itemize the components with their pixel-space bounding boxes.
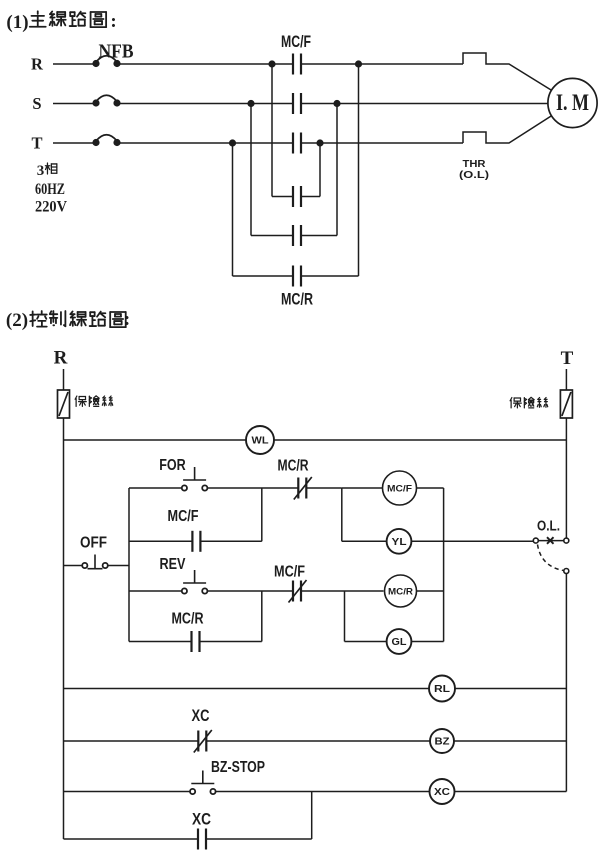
svg-text:MC/F: MC/F [274, 564, 305, 581]
svg-text:(2): (2) [6, 310, 28, 331]
phase label R [31, 55, 44, 74]
rail label T [561, 348, 574, 369]
wire MC/R row 1 with verticals [272, 64, 320, 197]
contact MC/F NO (holding) [192, 531, 200, 552]
label 220V [35, 199, 68, 216]
node T-right junction [316, 139, 323, 146]
label 60HZ [35, 181, 65, 198]
pushbutton REV (NO) [182, 570, 208, 594]
node T-left junction [229, 139, 236, 146]
fuse F1 (left) [58, 369, 70, 418]
title: (2) control circuit diagram heading [6, 309, 130, 331]
label BZ-STOP [211, 759, 265, 776]
wire MC/F-YL box left edge [341, 488, 343, 541]
lamp RL [429, 676, 455, 702]
svg-text:T: T [561, 348, 574, 369]
lamp WL [246, 426, 274, 454]
wire right rail lower [565, 574, 567, 792]
svg-text:R: R [54, 348, 68, 369]
svg-text:MC/R: MC/R [281, 291, 313, 309]
label NFB [99, 41, 134, 63]
wire MC/R row 3 with verticals [233, 64, 359, 276]
svg-text:FOR: FOR [159, 457, 186, 474]
wire bottom row [64, 838, 312, 840]
wire GL row [345, 641, 444, 643]
breaker NFB pole R [92, 56, 120, 67]
wire MC/R row 2 with verticals [251, 104, 337, 236]
rail label R [54, 348, 68, 369]
pushbutton BZ-STOP (NC) [190, 771, 216, 795]
contact XC NC [194, 730, 212, 753]
label 3-phase [37, 163, 57, 179]
svg-text:BZ-STOP: BZ-STOP [211, 759, 265, 776]
contact MC/R NC (interlock) [294, 477, 312, 500]
svg-text:60HZ: 60HZ [35, 181, 65, 198]
contact MC/R pole 2 [293, 225, 301, 246]
svg-text:OFF: OFF [80, 535, 107, 552]
svg-text:(1): (1) [6, 12, 28, 33]
label MC/R (holding contact) [172, 611, 204, 628]
wire MC/F holding row [129, 540, 262, 542]
label MC/F (interlock contact) [274, 564, 305, 581]
label fuse left [75, 396, 113, 407]
svg-text:XC: XC [192, 810, 211, 829]
wire FOR row [129, 487, 383, 489]
svg-text:3: 3 [37, 163, 45, 179]
svg-text:YL: YL [392, 537, 407, 548]
overload switch O.L. [533, 537, 569, 573]
coil MC/R [385, 575, 417, 607]
label O.L. [537, 519, 560, 535]
contact MC/R pole 3 [293, 266, 301, 287]
svg-text::: : [124, 309, 130, 330]
label REV [160, 556, 186, 573]
phase label S [32, 94, 41, 113]
svg-text:BZ: BZ [435, 737, 450, 748]
label MC/F (main contactor forward) [281, 33, 311, 51]
svg-text:MC/F: MC/F [281, 33, 311, 51]
contact MC/F pole 2 (S) [293, 93, 301, 114]
svg-text:220V: 220V [35, 199, 68, 216]
svg-text:I. M: I. M [556, 90, 589, 115]
wire S phase [53, 103, 548, 105]
coil MC/F [383, 471, 417, 505]
lamp GL [387, 629, 412, 654]
contact MC/F pole 3 (T) [293, 133, 301, 154]
svg-text:NFB: NFB [99, 41, 134, 63]
contact XC NO (holding) [198, 829, 206, 850]
label fuse right [510, 397, 548, 408]
wire REV row [129, 590, 384, 592]
wire R phase [53, 53, 554, 92]
label THR [463, 158, 486, 170]
wire RL row [64, 688, 567, 690]
svg-text::: : [110, 11, 116, 32]
wire branch box left edge [128, 488, 130, 642]
wire coil MC/F to right vertical [417, 487, 444, 489]
breaker NFB pole T [92, 135, 120, 146]
svg-text:REV: REV [160, 556, 186, 573]
phase label T [31, 134, 42, 153]
contact MC/R NO (holding) [192, 631, 200, 652]
fuse F2 (right) [560, 369, 572, 418]
wire OFF feed [64, 565, 130, 567]
node R-right junction [355, 60, 362, 67]
svg-text:MC/F: MC/F [387, 484, 412, 495]
svg-text:WL: WL [252, 436, 269, 447]
wire XC holding branch vertical [311, 792, 313, 840]
wire WL top row [64, 439, 567, 441]
breaker NFB pole S [92, 95, 120, 106]
coil XC [430, 779, 455, 804]
node R-left junction [268, 60, 275, 67]
contact MC/R pole 1 [293, 186, 301, 207]
svg-text:R: R [31, 55, 44, 74]
wire right rail upper [565, 418, 567, 538]
label MC/R (main contactor reverse) [281, 291, 313, 309]
pushbutton OFF (NC) [82, 555, 108, 569]
svg-text:S: S [32, 94, 41, 113]
wire T phase [53, 115, 554, 144]
svg-text:MC/R: MC/R [388, 587, 413, 598]
wire REV box right edge [261, 591, 263, 642]
wire MC/R holding row [129, 641, 262, 643]
svg-text:MC/R: MC/R [172, 611, 204, 628]
svg-text:XC: XC [192, 706, 210, 725]
svg-text:GL: GL [392, 637, 407, 648]
wire XC coil row [64, 791, 567, 793]
wire BZ row [64, 740, 567, 742]
svg-text:(O.L): (O.L) [459, 169, 489, 181]
svg-text:MC/R: MC/R [278, 458, 309, 475]
motor I.M [548, 78, 597, 127]
title: (1) main circuit diagram heading [6, 11, 116, 33]
node S-left junction [247, 100, 254, 107]
contact MC/F NC (interlock) [289, 580, 307, 603]
svg-text:T: T [31, 134, 42, 153]
wire right collector vertical [443, 488, 445, 642]
wire YL row [342, 540, 444, 542]
label MC/F (holding contact) [168, 508, 199, 525]
node S-right junction [333, 100, 340, 107]
label XC (holding contact) [192, 810, 211, 829]
wire left rail [63, 418, 65, 839]
label XC (cutoff contact) [192, 706, 210, 725]
lamp YL [387, 529, 412, 554]
svg-text:RL: RL [434, 684, 450, 695]
svg-text:O.L.: O.L. [537, 519, 560, 535]
lamp BZ (buzzer) [430, 729, 454, 753]
label OFF [80, 535, 107, 552]
svg-text:MC/F: MC/F [168, 508, 199, 525]
wire YL row to OL switch [444, 540, 534, 542]
label FOR [159, 457, 186, 474]
svg-text:XC: XC [434, 787, 450, 798]
wire FOR box right edge [261, 488, 263, 541]
contact MC/F pole 1 (R) [293, 54, 301, 75]
pushbutton FOR (NO) [182, 467, 208, 491]
wire coil MC/R to right vertical [417, 590, 444, 592]
label (O.L) [459, 169, 489, 181]
label MC/R (interlock contact) [278, 458, 309, 475]
wire MC/R-GL box left edge [344, 591, 346, 642]
